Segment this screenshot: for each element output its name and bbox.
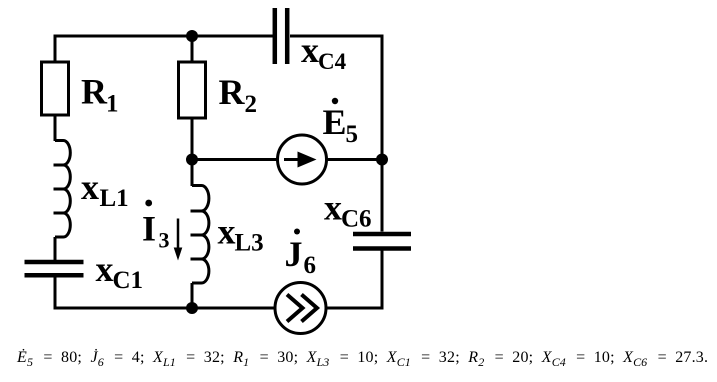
junction node bottom — [186, 302, 198, 314]
inductor L1 (x_L1) — [54, 141, 71, 238]
parameter values text line — [17, 349, 717, 370]
svg-text:x: x — [96, 249, 114, 289]
wire top junction to R2 — [191, 36, 194, 62]
label I3 (with phasor dot) — [142, 200, 170, 253]
wire L3 to bottom junction — [191, 283, 194, 308]
junction node 4 — [376, 154, 388, 166]
label J6 (with phasor dot) — [285, 229, 317, 280]
capacitor C1 (x_C1) — [25, 262, 84, 275]
svg-text:I: I — [142, 209, 156, 249]
wire node 3 to E5 left terminal — [192, 158, 278, 161]
svg-text:C6: C6 — [341, 206, 372, 233]
svg-text:5: 5 — [346, 121, 359, 148]
label x_C6 — [324, 188, 372, 233]
svg-text:J: J — [285, 234, 303, 274]
svg-text:C1: C1 — [113, 267, 144, 294]
resistor R2 — [179, 62, 206, 118]
capacitor C6 (x_C6) — [353, 234, 411, 249]
wire L1 to C1 — [54, 237, 57, 260]
label x_L1 — [81, 167, 129, 212]
svg-text:L1: L1 — [100, 185, 129, 212]
svg-text:2: 2 — [245, 91, 258, 118]
label x_C1 — [96, 249, 144, 294]
svg-text:C4: C4 — [318, 49, 347, 74]
source J6 (current source circle with double chevron) — [275, 283, 326, 334]
current arrow I3 — [174, 219, 183, 261]
wire top-left horizontal with left corner down to R1 — [55, 36, 273, 62]
wire C1 down and bottom-left horizontal to J6 left terminal — [55, 278, 276, 309]
svg-text:L3: L3 — [235, 230, 264, 257]
svg-text:1: 1 — [106, 91, 119, 118]
label R1 — [81, 72, 119, 118]
svg-text:6: 6 — [304, 252, 317, 279]
svg-text:x: x — [218, 212, 236, 252]
wire J6 right terminal to bottom-right corner up to C6 — [325, 251, 382, 309]
svg-text:x: x — [81, 167, 99, 207]
wire R1 to L1 — [54, 115, 57, 141]
inductor L3 (x_L3) — [191, 186, 209, 284]
svg-text:E: E — [323, 102, 347, 142]
svg-text:x: x — [324, 188, 342, 228]
svg-text:R: R — [81, 72, 108, 112]
wire E5 right terminal to node 4 — [326, 158, 382, 161]
label x_L3 — [218, 212, 264, 257]
label R2 — [219, 72, 258, 118]
wire R2 to node 3 and on to L3 — [191, 118, 194, 186]
resistor R1 — [42, 62, 69, 115]
capacitor C4 (x_C4) — [275, 8, 287, 64]
source E5 (EMF source circle with arrow) — [278, 135, 327, 184]
svg-text:x: x — [301, 30, 319, 70]
label E5 (with phasor dot) — [323, 98, 359, 148]
svg-text:R: R — [219, 72, 246, 112]
svg-text:3: 3 — [159, 228, 170, 253]
junction node 3 — [186, 154, 198, 166]
wire node 4 to C6 — [381, 160, 384, 232]
wire top-right horizontal with right corner down to node 4 — [290, 36, 382, 160]
junction node top (node 1a) — [186, 30, 198, 42]
label x_C4 — [301, 30, 347, 74]
